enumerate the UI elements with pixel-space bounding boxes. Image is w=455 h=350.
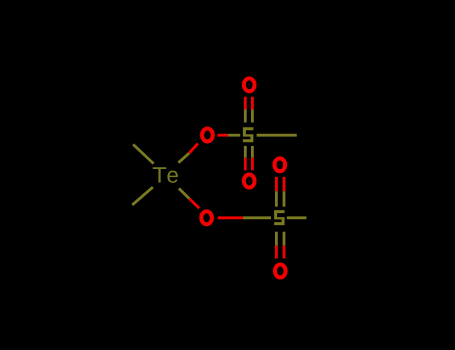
atom S2 xyxy=(274,210,285,225)
double bond S2=O6 line a (olive half) xyxy=(275,232,278,246)
bond Te-O1 (red half) xyxy=(189,143,198,153)
bond S1-CH3 xyxy=(257,134,297,137)
atom O1 xyxy=(202,129,213,142)
bond Te-O2 (olive half) xyxy=(179,188,189,198)
bond O1-S1 (olive half) xyxy=(228,134,240,137)
double bond S2=O6 line b (red half) xyxy=(283,246,286,259)
bond Te-O2 (red half) xyxy=(189,199,199,209)
bond O2-S2 (olive half) xyxy=(243,216,271,219)
atom O3 xyxy=(244,78,255,91)
bond S2-CH3 xyxy=(287,216,307,219)
double bond S2=O5 line b (olive half) xyxy=(283,191,286,206)
double bond S1=O4 line a (red half) xyxy=(244,158,247,171)
double bond S1=O4 line b (olive half) xyxy=(251,146,254,158)
double bond S2=O5 line b (red half) xyxy=(283,177,286,192)
atom O6 xyxy=(275,265,286,278)
double bond S2=O5 line a (olive half) xyxy=(275,191,278,206)
bond Te-CH3 upper-left xyxy=(133,144,154,163)
double bond S1=O4 line a (olive half) xyxy=(244,146,247,158)
double bond S1=O3 line a (olive half) xyxy=(244,110,247,123)
double bond S2=O6 line a (red half) xyxy=(275,246,278,259)
bond Te-CH3 lower-left xyxy=(132,187,153,205)
double bond S1=O3 line b (red half) xyxy=(251,97,254,110)
bond Te-O1 (olive half) xyxy=(178,153,189,163)
double bond S1=O4 line b (red half) xyxy=(251,158,254,171)
bond O2-S2 (red half) xyxy=(218,216,243,219)
bond O1-S1 (red half) xyxy=(218,134,229,137)
atom S1 xyxy=(243,127,254,142)
double bond S2=O5 line a (red half) xyxy=(275,177,278,192)
atom O4 xyxy=(244,175,255,188)
atom O2 xyxy=(201,211,212,224)
double bond S2=O6 line b (olive half) xyxy=(283,232,286,246)
atom O5 xyxy=(274,158,285,171)
double bond S1=O3 line b (olive half) xyxy=(251,110,254,123)
double bond S1=O3 line a (red half) xyxy=(244,97,247,110)
atom Te xyxy=(153,167,178,183)
